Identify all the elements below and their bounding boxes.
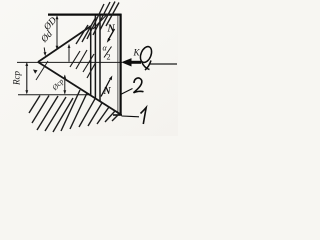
label part 1 — [141, 108, 147, 125]
dimension line diameter d — [68, 44, 71, 62]
cone 2 base edge — [90, 26, 92, 96]
leader for part 2 — [121, 89, 133, 95]
axis centerline — [17, 61, 122, 63]
conical hole upper edge — [93, 15, 107, 30]
block 1 bottom edge stub — [113, 114, 122, 116]
hole mouth edge — [94, 15, 96, 99]
block 1 right edge inner line — [117, 15, 119, 114]
cone lower slant / hole lower edge — [38, 62, 120, 114]
dimension line mean diameter — [63, 75, 66, 95]
hatch block upper region — [76, 2, 119, 45]
leader arrow for label d onto slant — [44, 48, 47, 57]
hatch cone interior — [70, 50, 96, 78]
hole inner edge — [99, 15, 101, 102]
block 1 top edge — [48, 14, 122, 16]
leader for part 1 — [122, 115, 140, 118]
svg-text:Rср: Rср — [12, 71, 22, 86]
axial force arrow — [121, 58, 141, 66]
apex arrow mark — [33, 70, 38, 74]
hatch stroke overshooting near apex — [36, 61, 48, 80]
force N lower arrow — [101, 76, 112, 97]
label part 2 — [134, 78, 144, 93]
dimension line diameter D — [56, 15, 59, 50]
svg-text:2: 2 — [107, 53, 111, 62]
svg-text:K: K — [133, 48, 141, 58]
block 1 right edge — [119, 14, 121, 116]
cone 2 upper slant — [38, 26, 91, 62]
dimension line mean radius Rcp — [25, 62, 28, 95]
hatch block lower region — [29, 90, 119, 132]
extension line for mean radius — [18, 94, 89, 96]
force N upper arrow — [107, 29, 115, 43]
rotation loop symbol — [138, 45, 153, 70]
axis centerline right segment — [150, 63, 177, 65]
